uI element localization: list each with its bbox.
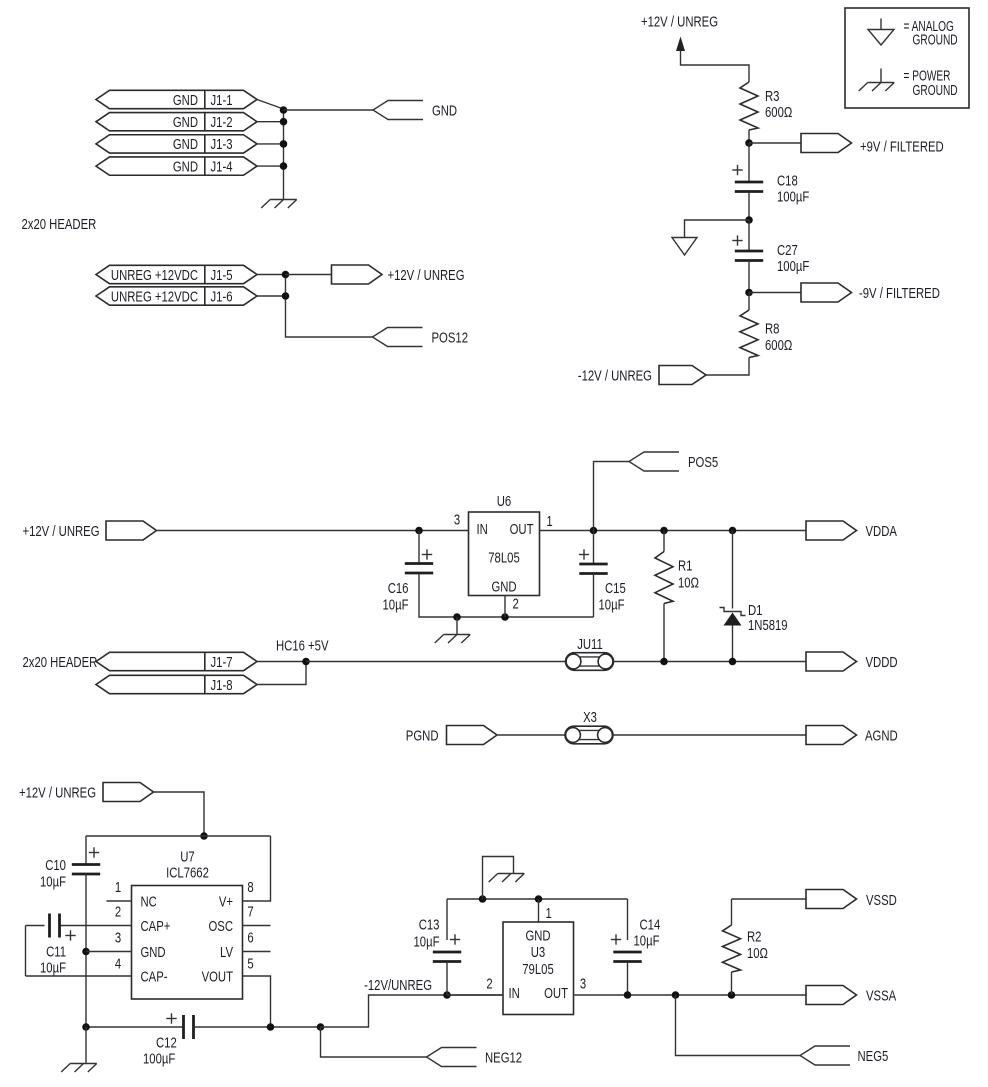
net tag +12V / UNREG — [332, 265, 383, 284]
svg-text:10Ω: 10Ω — [678, 575, 699, 591]
node U3 pin1 junction — [535, 895, 543, 903]
wire to NEG5 flag — [676, 995, 801, 1056]
svg-text:R3: R3 — [765, 89, 780, 105]
capacitor C12 — [182, 1015, 185, 1039]
svg-text:V+: V+ — [219, 894, 233, 910]
ground (power) below bus — [261, 200, 297, 209]
svg-text:D1: D1 — [748, 603, 763, 619]
IC U7 box (ICL7662) — [132, 886, 243, 1000]
capacitor C27 — [735, 250, 763, 253]
svg-text:GND: GND — [173, 115, 198, 131]
svg-text:U6: U6 — [497, 494, 512, 510]
net flag POS5 — [629, 452, 679, 471]
svg-text:J1-6: J1-6 — [211, 289, 233, 305]
svg-text:VSSA: VSSA — [866, 988, 896, 1004]
svg-text:100µF: 100µF — [777, 189, 809, 205]
node C13 junction — [443, 991, 451, 999]
svg-text:VDDD: VDDD — [866, 655, 898, 671]
wire node to JU11 — [306, 661, 566, 663]
svg-text:78L05: 78L05 — [488, 550, 520, 566]
wire R2 to VSSD tag — [732, 898, 807, 900]
capacitor C14 — [627, 899, 629, 940]
svg-text:2: 2 — [513, 596, 519, 612]
svg-text:GND: GND — [173, 159, 198, 175]
net tag VSSD — [806, 890, 857, 909]
svg-text:5: 5 — [247, 956, 253, 972]
svg-text:4: 4 — [115, 956, 121, 972]
wire node to C18 — [748, 143, 750, 182]
svg-text:600Ω: 600Ω — [765, 105, 792, 121]
svg-text:10µF: 10µF — [383, 597, 409, 613]
connector tag J1-6 — [96, 287, 257, 305]
svg-text:GROUND: GROUND — [913, 33, 958, 49]
legend box — [845, 8, 969, 108]
svg-text:JU11: JU11 — [577, 637, 603, 653]
resistor R1 — [663, 531, 665, 552]
diode D1 (schottky) — [732, 531, 734, 609]
svg-text:GND: GND — [432, 103, 457, 119]
U7 pin 1 stub NC — [107, 900, 132, 902]
wire J1-2 to bus — [257, 121, 284, 123]
svg-text:OUT: OUT — [544, 986, 568, 1002]
junction dots GND bus — [280, 106, 288, 114]
svg-text:R1: R1 — [678, 558, 693, 574]
svg-text:GND: GND — [173, 137, 198, 153]
wire C16 to ground rail — [419, 573, 594, 617]
wire to -9V tag — [749, 292, 801, 294]
svg-text:VOUT: VOUT — [202, 969, 234, 985]
svg-text:PGND: PGND — [406, 728, 439, 744]
svg-text:8: 8 — [247, 880, 253, 896]
connector tag J1-7 — [96, 652, 257, 670]
svg-text:10Ω: 10Ω — [747, 946, 768, 962]
wire C11 loop — [26, 925, 45, 927]
wire J1-6 to bus — [257, 295, 286, 297]
svg-text:POS12: POS12 — [432, 330, 469, 346]
svg-text:J1-2: J1-2 — [211, 115, 233, 131]
svg-text:2x20 HEADER: 2x20 HEADER — [22, 217, 97, 233]
wire +12V tag to U6 IN — [157, 530, 469, 532]
svg-text:3: 3 — [454, 512, 460, 528]
wire PGND to X3 — [498, 734, 566, 736]
svg-text:+12V / UNREG: +12V / UNREG — [388, 268, 465, 284]
svg-text:GND: GND — [141, 945, 166, 961]
svg-text:7: 7 — [247, 904, 253, 920]
wire U7 top rail — [86, 835, 271, 837]
wire U3 top rail — [447, 898, 628, 900]
connector tag J1-5 — [96, 265, 257, 283]
wire X3 to AGND tag — [613, 734, 807, 736]
svg-text:J1-1: J1-1 — [211, 93, 233, 109]
svg-text:OSC: OSC — [209, 919, 234, 935]
node C14 junction — [624, 991, 632, 999]
svg-text:GROUND: GROUND — [913, 83, 958, 99]
wire to NEG12 flag — [321, 1027, 427, 1057]
node bottom rail left — [82, 1023, 90, 1031]
svg-text:UNREG +12VDC: UNREG +12VDC — [111, 268, 198, 284]
svg-text:C18: C18 — [777, 173, 798, 189]
svg-text:10µF: 10µF — [599, 597, 625, 613]
svg-text:6: 6 — [247, 930, 253, 946]
node +9V junction — [745, 139, 753, 147]
node C18/C27 junction — [745, 216, 753, 224]
node NEG12 junction — [317, 1023, 325, 1031]
wire R8 to -12V tag — [706, 358, 749, 376]
wire to +9V tag — [749, 142, 801, 144]
svg-text:C10: C10 — [45, 858, 66, 874]
net tag VDDD — [806, 652, 857, 671]
svg-text:IN: IN — [477, 522, 488, 538]
net flag NEG5 — [800, 1046, 850, 1065]
svg-text:2x20 HEADER: 2x20 HEADER — [23, 655, 98, 671]
svg-text:-12V / UNREG: -12V / UNREG — [578, 368, 652, 384]
net flag POS12 — [373, 328, 423, 347]
svg-text:C15: C15 — [605, 581, 626, 597]
connector tag J1-3 — [96, 135, 257, 153]
svg-text:1: 1 — [546, 514, 552, 530]
svg-text:GND: GND — [525, 928, 550, 944]
net tag +12V / UNREG (bottom) — [103, 783, 154, 802]
svg-text:J1-7: J1-7 — [211, 655, 233, 671]
svg-text:GND: GND — [491, 579, 516, 595]
node ground rail junctions — [453, 613, 461, 621]
wire mid node to C27 — [748, 220, 750, 251]
svg-text:IN: IN — [509, 986, 520, 1002]
wire J1-5 to bus — [257, 274, 286, 276]
power arrow +12V / UNREG — [676, 37, 685, 52]
svg-text:C14: C14 — [640, 917, 661, 933]
node pin3 junction — [82, 948, 90, 956]
wire J1-3 to bus — [257, 143, 284, 145]
svg-text:3: 3 — [115, 930, 121, 946]
svg-text:+12V / UNREG: +12V / UNREG — [23, 524, 100, 540]
svg-text:HC16 +5V: HC16 +5V — [276, 638, 329, 654]
svg-text:OUT: OUT — [510, 522, 534, 538]
wire bottom rail right — [194, 1026, 321, 1028]
svg-text:NEG12: NEG12 — [485, 1050, 522, 1066]
net tag +9V / FILTERED — [801, 134, 852, 153]
wire left vertical C10 — [85, 836, 87, 865]
capacitor C11 — [48, 914, 51, 938]
svg-text:UNREG +12VDC: UNREG +12VDC — [111, 289, 198, 305]
resistor R8 — [740, 310, 758, 358]
svg-text:C27: C27 — [777, 243, 798, 259]
U3 pin 1 stub — [538, 899, 540, 922]
junction dots +12V bus — [282, 271, 290, 279]
svg-text:600Ω: 600Ω — [765, 338, 792, 354]
wire node to R8 — [748, 293, 750, 311]
node VDDD junctions — [660, 658, 668, 666]
ground (analog) — [672, 238, 697, 256]
svg-text:J1-8: J1-8 — [211, 678, 233, 694]
connector tag J1-4 — [96, 157, 257, 175]
svg-text:1: 1 — [546, 906, 552, 922]
svg-text:R2: R2 — [747, 929, 762, 945]
net tag AGND — [806, 726, 857, 745]
resistor R3 — [740, 82, 758, 130]
svg-text:ICL7662: ICL7662 — [166, 865, 209, 881]
connector tag J1-8 — [96, 675, 257, 693]
wire GND bus vertical — [283, 110, 285, 200]
svg-text:10µF: 10µF — [634, 933, 660, 949]
node C16 junction — [415, 527, 423, 535]
svg-text:J1-4: J1-4 — [211, 159, 233, 175]
capacitor C18 — [735, 181, 763, 184]
svg-text:+12V / UNREG: +12V / UNREG — [641, 14, 718, 30]
svg-text:-12V/UNREG: -12V/UNREG — [364, 978, 432, 994]
op-amp U6 box (regulator 78L05) — [469, 512, 540, 596]
node VDDA junctions — [590, 527, 598, 535]
svg-text:2: 2 — [115, 904, 121, 920]
net tag +12V / UNREG (mid) — [106, 521, 157, 540]
svg-text:3: 3 — [580, 976, 586, 992]
net tag -9V / FILTERED — [801, 283, 852, 302]
node -9V junction — [745, 289, 753, 297]
svg-text:VSSD: VSSD — [866, 893, 897, 909]
wire JU11 to VDDD tag — [614, 661, 807, 663]
legend power ground symbol — [880, 69, 882, 83]
wire C10 down to ground rail — [85, 874, 87, 1027]
node U3 ground junction — [479, 895, 487, 903]
wire J1-8 to node — [257, 662, 306, 685]
connector tag J1-1 — [96, 90, 257, 108]
wire C16 top stub — [418, 531, 420, 564]
svg-text:CAP+: CAP+ — [141, 919, 171, 935]
net tag VSSA — [806, 986, 857, 1005]
node NEG5 junction — [672, 991, 680, 999]
node R2 junction — [728, 991, 736, 999]
resistor R2 — [731, 899, 733, 925]
wire bus to +12V tag — [286, 274, 332, 276]
node HC16 junction — [302, 658, 310, 666]
wire U3 ground elbow — [483, 857, 514, 900]
wire C27 to -9V node — [748, 261, 750, 293]
svg-text:J1-5: J1-5 — [211, 268, 233, 284]
svg-text:X3: X3 — [583, 710, 597, 726]
svg-text:C12: C12 — [156, 1035, 177, 1051]
wire +12V tag to top rail — [154, 792, 204, 836]
svg-text:+9V / FILTERED: +9V / FILTERED — [860, 139, 944, 155]
wire bottom rail left — [86, 1026, 184, 1028]
svg-text:U3: U3 — [531, 945, 546, 961]
legend analog ground symbol — [880, 19, 882, 30]
U7 pin 5 stub VOUT — [243, 976, 271, 1027]
U7 pin 7 stub OSC — [243, 925, 271, 927]
svg-text:J1-3: J1-3 — [211, 137, 233, 153]
svg-text:GND: GND — [173, 93, 198, 109]
node VOUT junction — [267, 1023, 275, 1031]
wire mid node to analog ground — [685, 220, 750, 238]
svg-text:NEG5: NEG5 — [858, 1049, 889, 1065]
svg-text:+12V / UNREG: +12V / UNREG — [19, 785, 96, 801]
U7 pin 3 stub GND — [86, 951, 132, 953]
svg-text:100µF: 100µF — [143, 1051, 175, 1067]
svg-text:LV: LV — [220, 945, 233, 961]
net flag NEG12 — [427, 1048, 477, 1067]
ground (power) U6 — [435, 635, 471, 644]
svg-text:NC: NC — [141, 894, 157, 910]
svg-text:U7: U7 — [180, 849, 195, 865]
svg-text:CAP-: CAP- — [141, 969, 168, 985]
U6 pin 2 stub — [504, 596, 506, 618]
wire J1-1 to bus — [257, 100, 284, 110]
jumper JU11 — [566, 653, 614, 671]
svg-text:POS5: POS5 — [688, 455, 718, 471]
svg-text:10µF: 10µF — [40, 874, 66, 890]
ground (power) U3 — [489, 874, 525, 883]
wire to -12V/UNREG rail — [321, 995, 504, 1027]
U7 pin 6 stub LV — [243, 951, 271, 953]
jumper X3 — [565, 726, 613, 744]
capacitor C15 — [593, 531, 595, 565]
U7 pin 2 stub CAP+ — [60, 925, 132, 927]
svg-text:79L05: 79L05 — [522, 962, 554, 978]
net flag GND — [373, 101, 423, 120]
svg-text:1N5819: 1N5819 — [748, 618, 788, 634]
net tag PGND — [447, 726, 498, 745]
svg-text:100µF: 100µF — [777, 259, 809, 275]
node top rail junction — [200, 832, 208, 840]
svg-text:2: 2 — [486, 976, 492, 992]
wire bus to GND flag — [284, 109, 374, 111]
svg-text:10µF: 10µF — [40, 960, 66, 976]
wire +12V bus — [286, 275, 373, 338]
ground (power) U7 — [85, 1027, 87, 1063]
capacitor C10 — [72, 863, 100, 866]
capacitor C13 — [446, 899, 448, 940]
connector tag J1-2 — [96, 113, 257, 131]
U7 pin 4 stub CAP- — [26, 975, 132, 977]
svg-text:-9V / FILTERED: -9V / FILTERED — [859, 286, 940, 302]
wire J1-7 to node — [257, 661, 306, 663]
svg-text:VDDA: VDDA — [866, 524, 898, 540]
wire ground stub — [456, 617, 458, 635]
U7 pin 8 stub V+ — [243, 836, 271, 901]
svg-text:10µF: 10µF — [414, 934, 440, 950]
svg-text:1: 1 — [115, 880, 121, 896]
net tag VDDA — [806, 521, 857, 540]
svg-text:R8: R8 — [765, 321, 780, 337]
wire to POS5 flag — [594, 462, 630, 531]
net tag -12V / UNREG — [659, 366, 706, 385]
wire C18 to mid node — [748, 192, 750, 221]
svg-text:AGND: AGND — [865, 728, 898, 744]
IC U3 box (79L05) — [503, 922, 574, 1015]
wire J1-4 to bus — [257, 165, 284, 167]
svg-text:C13: C13 — [419, 917, 440, 933]
svg-text:C16: C16 — [388, 581, 409, 597]
U3 pin 2 stub — [447, 994, 503, 996]
wire R3 to +9V node — [748, 130, 750, 143]
svg-text:C11: C11 — [46, 944, 66, 960]
U3 pin 3 wire to VSSA — [574, 994, 807, 996]
wire U6 OUT to VDDA tag — [540, 530, 807, 532]
capacitor C16 — [405, 562, 433, 565]
